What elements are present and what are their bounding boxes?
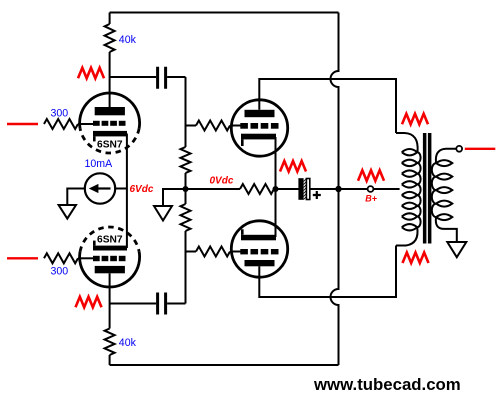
ground CS: [59, 205, 76, 219]
wire upper plate to primary top: [259, 79, 396, 133]
svg-text:10mA: 10mA: [85, 158, 114, 170]
wire output (red): [465, 148, 496, 150]
resistor 300 upper: [44, 119, 78, 129]
svg-text:6Vdc: 6Vdc: [130, 184, 154, 195]
resistor divider upper: [185, 77, 187, 147]
svg-text:40k: 40k: [119, 337, 137, 349]
wire plate node to coupling cap: [110, 76, 157, 78]
annotation squiggle B+: [358, 170, 384, 181]
annotation squiggle lower plate: [76, 297, 102, 308]
wire input upper (red): [7, 123, 38, 125]
ground secondary: [447, 242, 466, 257]
node divider/ground junction: [183, 186, 189, 192]
annotation squiggle primary top: [402, 114, 428, 125]
resistor grid upper output: [186, 125, 197, 127]
node output terminal: [456, 146, 462, 152]
transformer secondary winding: [436, 160, 452, 166]
wire electrolytic to B+ rail: [310, 188, 339, 190]
svg-text:www.tubecad.com: www.tubecad.com: [313, 375, 461, 394]
svg-text:300: 300: [51, 108, 69, 120]
wire lower cap to plate node: [110, 303, 157, 305]
transformer primary winding: [402, 149, 417, 155]
wire B+ bottom rail: [110, 364, 339, 366]
svg-text:6SN7: 6SN7: [97, 140, 123, 151]
annotation squiggle upper plate: [78, 68, 104, 79]
svg-text:300: 300: [51, 266, 69, 278]
node cathode junction: [273, 186, 279, 192]
wire input lower (red): [7, 257, 38, 259]
svg-text:40k: 40k: [119, 34, 137, 46]
wire B+ vertical with hops: [331, 13, 339, 366]
wire lower plate to primary bottom: [259, 246, 396, 298]
resistor 40k lower: [109, 273, 111, 328]
triode V2 output upper: [231, 100, 287, 156]
wire secondary top lead: [436, 149, 456, 163]
wire cathode node to electrolytic: [276, 188, 299, 190]
svg-text:0Vdc: 0Vdc: [210, 176, 234, 187]
wire 6SN7 cathode rail: [126, 134, 128, 249]
triode V1b 6SN7 lower: [80, 227, 140, 287]
transformer primary exit bottom: [396, 227, 418, 245]
capacitor coupling upper: [158, 67, 166, 89]
node B+ terminal: [368, 186, 374, 192]
triode V3 output lower: [231, 221, 287, 277]
triode V1a 6SN7 upper: [80, 93, 140, 153]
svg-text:6SN7: 6SN7: [97, 234, 123, 245]
resistor divider lower: [181, 204, 191, 231]
annotation squiggle primary bottom: [403, 253, 429, 264]
plus sign: [313, 191, 321, 199]
wire secondary bottom lead: [436, 217, 457, 242]
wire B+ rail to terminal: [339, 188, 368, 190]
wire B+ top rail: [110, 12, 339, 14]
svg-text:B+: B+: [365, 193, 377, 203]
capacitor electrolytic negative plate: [298, 178, 303, 200]
wire CS right lead: [115, 188, 127, 190]
current source 10mA: [85, 173, 115, 203]
node B+ junction: [335, 186, 341, 192]
transformer primary entry top: [396, 133, 418, 152]
resistor 300 lower: [44, 253, 78, 263]
wire terminal to center tap: [373, 188, 399, 190]
resistor 0Vdc to cathodes: [186, 188, 241, 190]
wire cap to divider line: [167, 76, 185, 78]
capacitor electrolytic positive plate: [306, 179, 309, 200]
resistor grid lower output: [186, 251, 197, 253]
wire CS left lead: [67, 189, 85, 206]
capacitor coupling lower: [158, 293, 166, 315]
ground 0Vdc: [163, 189, 186, 206]
wire divider to lower cap: [167, 303, 185, 305]
wire output cathode rail: [275, 137, 277, 237]
annotation squiggle cathode node: [280, 161, 306, 172]
transformer core: [423, 133, 427, 244]
resistor 40k upper: [109, 13, 111, 25]
